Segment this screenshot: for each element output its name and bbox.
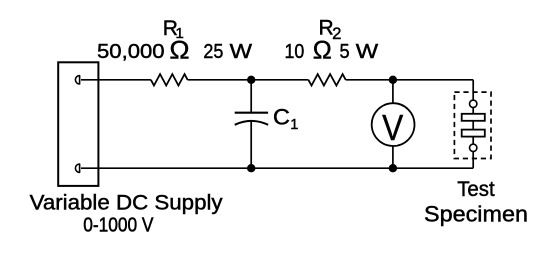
wire specimen to bottom rail bbox=[472, 152, 474, 169]
specimen bottom electrode circle bbox=[470, 144, 477, 151]
capacitor C1 curved plate bbox=[235, 121, 268, 125]
node junction top C1 bbox=[247, 76, 255, 84]
svg-text:Test: Test bbox=[457, 178, 495, 201]
specimen plate 2 bbox=[462, 130, 485, 137]
svg-text:Specimen: Specimen bbox=[424, 201, 528, 226]
svg-text:1: 1 bbox=[290, 117, 298, 133]
svg-text:V: V bbox=[382, 108, 403, 148]
svg-text:W: W bbox=[230, 41, 253, 63]
variable DC supply box bbox=[58, 62, 98, 186]
wire bbox=[472, 108, 474, 114]
wire bottom rail bbox=[81, 167, 473, 169]
svg-text:W: W bbox=[356, 41, 379, 63]
node junction bottom C1 bbox=[247, 164, 255, 172]
svg-text:C: C bbox=[273, 105, 290, 130]
node junction bottom V bbox=[389, 164, 397, 172]
wire bbox=[472, 137, 474, 145]
resistor R1 bbox=[151, 74, 188, 85]
wire V branch top bbox=[392, 80, 394, 103]
voltmeter V letter bbox=[382, 108, 403, 148]
svg-text:Ω: Ω bbox=[313, 36, 332, 64]
wire C1 branch bbox=[250, 80, 252, 168]
svg-text:10: 10 bbox=[285, 41, 305, 63]
voltmeter V circle bbox=[372, 103, 415, 146]
capacitor C1 top plate bbox=[235, 112, 268, 114]
wire top rail bbox=[81, 79, 473, 81]
specimen plate 1 bbox=[462, 114, 485, 121]
test specimen dashed box bbox=[454, 92, 491, 158]
specimen top electrode circle bbox=[470, 100, 477, 107]
svg-text:25: 25 bbox=[203, 41, 223, 63]
svg-text:0-1000 V: 0-1000 V bbox=[83, 213, 153, 236]
terminal top bbox=[75, 76, 79, 84]
wire bbox=[472, 121, 474, 130]
resistor R2 bbox=[308, 74, 345, 85]
node junction top V bbox=[389, 76, 397, 84]
terminal bottom bbox=[75, 164, 79, 172]
svg-text:Variable DC Supply: Variable DC Supply bbox=[30, 192, 224, 215]
wire V branch bottom bbox=[392, 146, 394, 168]
svg-text:5: 5 bbox=[340, 41, 350, 63]
wire right drop to specimen bbox=[472, 80, 474, 100]
svg-text:Ω: Ω bbox=[169, 36, 189, 64]
svg-text:50,000: 50,000 bbox=[97, 41, 165, 63]
